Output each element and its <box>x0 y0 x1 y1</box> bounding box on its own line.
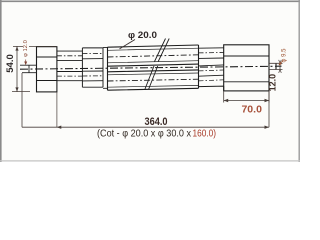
svg-text:φ 9.5: φ 9.5 <box>282 48 288 63</box>
svg-text:160.0): 160.0) <box>193 127 217 139</box>
svg-text:54.0: 54.0 <box>5 54 16 73</box>
svg-text:φ 12.0: φ 12.0 <box>23 40 29 57</box>
svg-text:12.0: 12.0 <box>268 74 278 92</box>
svg-text:(Cot - φ 20.0 x φ 30.0 x: (Cot - φ 20.0 x φ 30.0 x <box>97 127 192 139</box>
svg-text:φ 20.0: φ 20.0 <box>128 30 157 41</box>
svg-text:364.0: 364.0 <box>145 116 168 128</box>
svg-text:70.0: 70.0 <box>241 104 262 116</box>
